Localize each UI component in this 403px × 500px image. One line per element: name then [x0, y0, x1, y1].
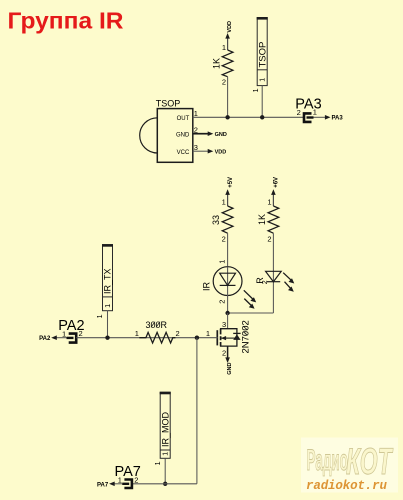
wire down to bottom net [196, 338, 198, 484]
svg-text:GND: GND [215, 132, 227, 138]
resistor R3 1K (LED ballast right) [257, 198, 279, 244]
LED D2 R (IR emitter diode) [255, 271, 295, 291]
svg-text:3: 3 [194, 143, 198, 152]
svg-text:+6V: +6V [274, 177, 280, 188]
svg-text:GND: GND [227, 363, 233, 375]
svg-text:300R: 300R [146, 320, 168, 330]
emission arrow 2 [285, 282, 292, 290]
svg-text:1: 1 [267, 198, 271, 207]
svg-text:IR_MOD: IR_MOD [160, 411, 170, 447]
connector TSOP (single-pin header) [251, 18, 269, 118]
LED D1 IR (circled LED) [202, 260, 257, 309]
diode triangle [220, 273, 236, 285]
jumper bracket body [304, 113, 312, 122]
resistor zigzag body [268, 206, 279, 233]
body diode [233, 334, 240, 340]
svg-text:TSOP: TSOP [258, 42, 269, 68]
svg-text:1: 1 [222, 198, 226, 207]
resistor R2 33 (LED ballast) [211, 198, 233, 244]
junction gate net / IR_TX [105, 336, 109, 340]
svg-text:2: 2 [222, 349, 226, 358]
resistor zigzag body [139, 332, 175, 343]
junction gate net / bottom net [195, 336, 199, 340]
wire resistor R1 to OUT net [227, 77, 229, 118]
svg-text:1: 1 [163, 452, 170, 456]
power symbol VDD (U1 pin 3 net arrow) [193, 149, 226, 156]
substrate arrow [221, 337, 237, 339]
ground symbol GND (U1 pin 2 net arrow) [193, 131, 227, 138]
net arrow PA7 [114, 483, 123, 485]
svg-text:PA3: PA3 [332, 116, 344, 122]
junction bottom net / IR_MOD [163, 482, 167, 486]
svg-text:1: 1 [135, 329, 139, 338]
wire through LED [227, 267, 229, 296]
svg-text:3: 3 [222, 320, 226, 329]
wire OUT net (U1 pin1 to PA3) [193, 116, 303, 118]
cathode bar [267, 281, 281, 283]
power symbol +5V (net arrow up) [225, 177, 234, 206]
wire R2 to LED IR [227, 233, 229, 267]
svg-text:КОТ: КОТ [346, 440, 393, 482]
connector PA2 (jumper) [39, 318, 84, 342]
svg-text:1K: 1K [212, 58, 222, 69]
svg-text:1: 1 [95, 314, 104, 318]
gate bar [216, 330, 218, 345]
svg-text:PA7: PA7 [97, 482, 109, 488]
svg-text:VDD: VDD [215, 150, 227, 156]
svg-text:2: 2 [262, 280, 269, 284]
emission arrow 1 [244, 290, 254, 299]
IC U1 TSOP IR receiver [140, 99, 198, 163]
svg-text:2: 2 [134, 475, 138, 484]
drain/source outline [220, 329, 237, 346]
power symbol +6V (net arrow up) [271, 177, 280, 206]
svg-text:Радио: Радио [307, 443, 348, 477]
svg-text:2: 2 [222, 235, 226, 244]
svg-text:radiokot.ru: radiokot.ru [306, 479, 387, 493]
wire drain pin [227, 313, 229, 329]
svg-text:2: 2 [267, 235, 271, 244]
emission arrow 1 [283, 273, 292, 281]
svg-text:1: 1 [313, 107, 317, 116]
svg-text:2: 2 [79, 329, 83, 338]
svg-text:1: 1 [251, 88, 260, 92]
LED circle outline [213, 267, 242, 296]
wire gate net (PA2 to Q1 gate) [76, 337, 218, 339]
svg-text:2: 2 [176, 329, 180, 338]
svg-text:OUT: OUT [177, 116, 190, 122]
svg-text:+5V: +5V [228, 177, 234, 188]
net arrow PA3 [314, 116, 327, 118]
IC body [157, 109, 193, 163]
svg-text:PA2: PA2 [39, 336, 51, 342]
power symbol VDD (net arrow up) [225, 21, 233, 50]
svg-text:33: 33 [211, 215, 221, 225]
svg-text:2N7002: 2N7002 [241, 320, 252, 353]
svg-text:1: 1 [206, 329, 210, 338]
jumper bracket body [69, 334, 77, 343]
svg-text:1: 1 [218, 260, 227, 264]
wire bottom net (PA7 to riser) [132, 483, 197, 485]
connector IR_TX (single-pin header) [95, 245, 113, 338]
connector PA3 (jumper) [295, 96, 343, 122]
resistor R1 1K (pull-up to VDD) [212, 43, 233, 87]
junction OUT net / TSOP connector [260, 115, 264, 119]
svg-text:1: 1 [222, 43, 226, 52]
resistor zigzag body [222, 50, 233, 77]
svg-text:GND: GND [176, 132, 190, 138]
emission arrow 2 [244, 299, 252, 306]
svg-text:2: 2 [218, 300, 227, 304]
resistor R4 300R (gate series) [135, 320, 180, 343]
junction drain node [225, 311, 229, 315]
junction OUT net / R1 [225, 115, 229, 119]
svg-text:VCC: VCC [177, 150, 190, 156]
jumper bracket body [124, 480, 131, 489]
wire connector pin to bottom net [164, 458, 166, 484]
transistor Q1 2N7002 (N-MOSFET) [206, 313, 252, 375]
connector IR_MOD (single-pin header) [153, 392, 171, 484]
channel segment top [220, 329, 222, 334]
svg-text:1: 1 [105, 304, 112, 308]
svg-text:TSOP: TSOP [156, 99, 181, 109]
svg-text:1K: 1K [257, 214, 267, 225]
svg-text:1: 1 [260, 78, 267, 82]
cathode bar [220, 284, 236, 286]
wire connector pin to gate net [107, 311, 109, 338]
ground symbol GND (source net arrow) [227, 346, 229, 359]
wire LED IR to drain node [227, 296, 229, 314]
wire right branch to drain node [228, 312, 274, 314]
wire connector pin to OUT net [261, 86, 263, 118]
svg-text:Группа IR: Группа IR [8, 8, 124, 34]
channel segment middle [220, 336, 222, 340]
svg-text:2: 2 [297, 108, 301, 117]
receiver lens semicircle [140, 118, 158, 153]
channel segment bottom [220, 342, 222, 346]
svg-text:2: 2 [222, 78, 226, 87]
svg-text:IR_TX: IR_TX [103, 268, 113, 294]
connector PA7 (jumper) [97, 464, 141, 489]
svg-text:1: 1 [194, 109, 198, 118]
diode triangle [266, 271, 282, 281]
watermark РадиоКОТ radiokot.ru [301, 438, 398, 494]
wire R3 through LED R down to corner [272, 233, 274, 313]
resistor zigzag body [222, 206, 233, 233]
net arrow PA2 [56, 337, 67, 339]
svg-text:IR: IR [202, 281, 212, 291]
svg-text:1: 1 [153, 461, 162, 465]
svg-text:VDD: VDD [227, 21, 233, 33]
